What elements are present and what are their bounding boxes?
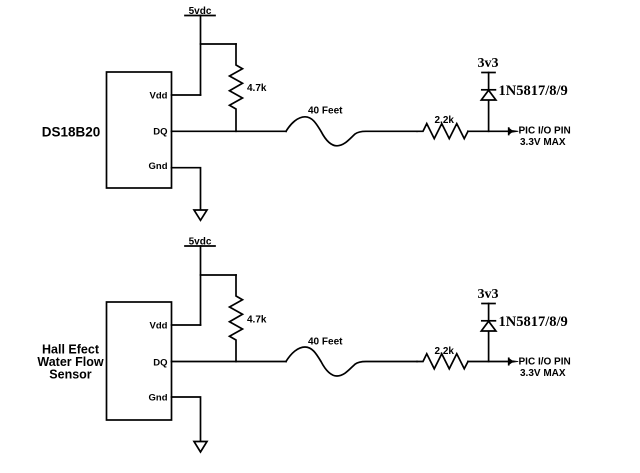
svg-text:PIC I/O PIN: PIC I/O PIN	[519, 126, 571, 137]
svg-text:40 Feet: 40 Feet	[308, 106, 343, 117]
svg-text:4.7k: 4.7k	[247, 314, 267, 325]
resistor R3 4.7k (bottom)	[230, 275, 243, 362]
arrow to PIC I/O pin (bottom)	[509, 358, 518, 364]
svg-text:2.2k: 2.2k	[435, 115, 455, 126]
svg-text:4.7k: 4.7k	[247, 83, 267, 94]
wire R4 to output (bottom)	[468, 361, 509, 363]
wire DQ pin (top)	[172, 130, 287, 132]
resistor R2 2.2k (top)	[417, 124, 468, 139]
wire Gnd pin (bottom)	[172, 397, 201, 441]
wire Vdd pin to 5vdc (bottom)	[172, 324, 201, 326]
wire 5vdc down to Vdd (bottom)	[200, 246, 202, 325]
wire DQ pin (bottom)	[172, 361, 287, 363]
wire branch to R3 (bottom)	[201, 274, 237, 276]
power 3v3 bar (bottom)	[482, 303, 495, 305]
label Hall Efect Water Flow Sensor	[37, 343, 103, 382]
svg-text:Sensor: Sensor	[49, 368, 92, 382]
power 3v3 bar (top)	[482, 72, 495, 74]
svg-text:40 Feet: 40 Feet	[308, 337, 343, 348]
resistor R1 4.7k (top)	[230, 44, 243, 131]
power 5vdc (top circuit)	[185, 6, 215, 17]
svg-text:3.3V MAX: 3.3V MAX	[520, 368, 566, 379]
wire 5vdc down to Vdd (top)	[200, 16, 202, 96]
wire branch to R1 (top)	[201, 43, 237, 45]
ground symbol (top)	[194, 210, 207, 220]
diode D2 1N5817 (bottom)	[481, 304, 496, 362]
svg-text:Gnd: Gnd	[149, 161, 168, 172]
svg-text:Vdd: Vdd	[150, 91, 168, 102]
wire Gnd pin (top)	[172, 168, 201, 210]
svg-text:PIC I/O PIN: PIC I/O PIN	[519, 357, 571, 368]
sensor U2 Hall Effect box	[107, 302, 172, 420]
svg-text:3.3V MAX: 3.3V MAX	[520, 137, 566, 148]
cable 40 Feet wavy section (top)	[286, 117, 417, 146]
svg-text:1N5817/8/9: 1N5817/8/9	[499, 83, 568, 99]
svg-text:DQ: DQ	[153, 127, 167, 138]
svg-text:3v3: 3v3	[478, 287, 499, 302]
wire R2 to output (top)	[468, 130, 509, 132]
svg-text:1N5817/8/9: 1N5817/8/9	[499, 314, 568, 330]
arrow to PIC I/O pin (top)	[509, 128, 518, 134]
svg-text:DS18B20: DS18B20	[42, 125, 101, 140]
sensor U1 DS18B20 box	[107, 72, 172, 188]
ground symbol (bottom)	[194, 442, 207, 453]
wire Vdd pin to 5vdc (top)	[172, 94, 201, 96]
diode D1 1N5817 (top)	[481, 73, 496, 132]
svg-text:2.2k: 2.2k	[435, 346, 455, 357]
cable 40 Feet wavy section (bottom)	[286, 347, 417, 376]
svg-text:Vdd: Vdd	[150, 321, 168, 332]
svg-text:Gnd: Gnd	[149, 393, 168, 404]
power 5vdc (bottom circuit)	[185, 237, 215, 248]
svg-text:3v3: 3v3	[478, 56, 499, 71]
svg-text:DQ: DQ	[153, 358, 167, 369]
resistor R4 2.2k (bottom)	[417, 354, 468, 369]
